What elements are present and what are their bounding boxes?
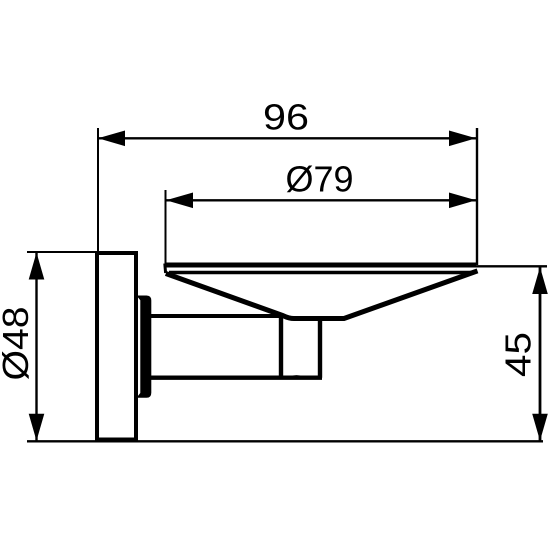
dim 48/45 extension line bottom <box>27 440 543 442</box>
svg-text:Ø79: Ø79 <box>286 159 354 200</box>
dim 45 arrow bottom <box>532 414 548 441</box>
dim 45 arrow top <box>532 267 548 294</box>
dim 79 line <box>166 199 476 201</box>
dish rim left cap <box>163 264 167 274</box>
dish rim top line <box>165 263 477 268</box>
dim 45 extension line top <box>476 265 547 267</box>
dim 48 arrow top <box>29 253 45 280</box>
dim 96 line <box>98 137 476 139</box>
dim 79 arrow left <box>166 193 193 209</box>
dim 96 arrow right <box>449 131 476 147</box>
dim 48 extension line top <box>27 251 97 253</box>
dim 96/79 extension line right <box>476 128 478 265</box>
svg-text:96: 96 <box>263 97 309 138</box>
connector left edge <box>279 315 283 378</box>
wall plate <box>97 253 136 440</box>
dim 96 extension line left <box>97 128 99 253</box>
dim 79 arrow right <box>449 193 476 209</box>
cone tip detail bump <box>289 376 304 378</box>
dish cone profile <box>166 271 478 319</box>
arm bottom edge <box>151 376 322 380</box>
dim 45 line <box>539 267 542 442</box>
dim 96 arrow left <box>98 131 125 147</box>
dim 79 extension line left <box>165 190 167 265</box>
dish rim bottom line <box>169 271 471 274</box>
svg-text:45: 45 <box>498 332 539 377</box>
connector right edge <box>318 318 322 378</box>
flange <box>137 296 152 398</box>
dim 48 arrow bottom <box>29 414 45 441</box>
dim 48 line <box>35 252 37 441</box>
svg-text:Ø48: Ø48 <box>0 307 36 381</box>
arm top edge <box>151 314 283 318</box>
